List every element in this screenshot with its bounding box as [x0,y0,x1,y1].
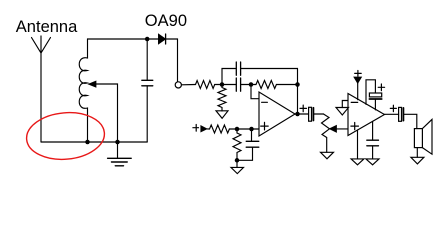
wire U2 inverting input to ground [342,101,348,108]
wire U2 output [385,113,399,115]
bias ground node dot [235,158,240,163]
speaker LS1 [414,129,422,148]
ground triangle bias [231,167,244,173]
capacitor C4 electrolytic [309,107,312,121]
wire ground rail [41,141,147,143]
node B junction dot [249,82,254,87]
resistor R5 bias lower [233,129,241,160]
coil tap arrow [89,81,96,87]
capacitor C2 series [222,84,236,86]
ground triangle speaker [411,157,424,164]
node A junction dot [220,82,225,87]
junction dot top node [145,37,150,42]
input terminal circle [175,82,181,88]
capacitor C3 feedback [222,69,236,85]
wiper arrow [330,126,337,132]
label + C4 [300,105,307,112]
wire to ground [236,160,238,167]
wire coil top to node [88,38,148,40]
ground triangle U2 - input [336,108,349,116]
ground triangle V- [351,159,364,165]
junction dot tap at rail [115,140,120,145]
red highlight ellipse [25,109,107,162]
capacitor C8 [372,122,374,141]
bias source +V [193,125,199,132]
resistor R1 [196,81,215,89]
op-amp U1 output node dot [295,112,300,117]
svg-text:Antenna: Antenna [16,18,78,36]
supply +V arrow [355,71,362,77]
variable capacitor C1 [146,39,148,80]
svg-text:OA90: OA90 [145,12,187,30]
resistor R2 to ground [218,85,226,112]
potentiometer VR1 [322,114,330,152]
inductor L1 coil [79,39,87,142]
wire terminal to R1 [182,84,196,86]
wire feedback vertical [297,69,299,115]
wire U2 V- pin [357,130,359,158]
wire U1 output [295,113,309,115]
capacitor C5 bypass electrolytic [366,80,375,105]
capacitor C6 electrolytic [399,107,402,121]
wire antenna lead down [40,53,42,142]
antenna symbol [32,36,51,53]
wire R1 to node A [215,84,222,86]
feedback node dot [295,82,300,87]
capacitor C7 bias bypass [251,129,253,141]
ground triangle C8 [366,159,379,165]
label + C6 [390,105,396,111]
wiper wire to U2 + input [336,128,348,130]
resistor R3 feedback [251,81,298,89]
diode D1 OA90 [147,38,159,40]
earth ground [117,142,119,158]
ground triangle pot [321,152,334,159]
label + C5 [378,84,384,91]
wire node B to inverting input [251,85,259,99]
resistor R4 bias [207,125,229,133]
ground triangle below R2 [216,111,228,119]
wire tap to rail [96,84,118,142]
op-amp U1 [259,92,295,136]
wire bias node to + input [229,128,259,130]
junction dot coil bottom [85,140,90,145]
op-amp U2 [348,94,385,136]
